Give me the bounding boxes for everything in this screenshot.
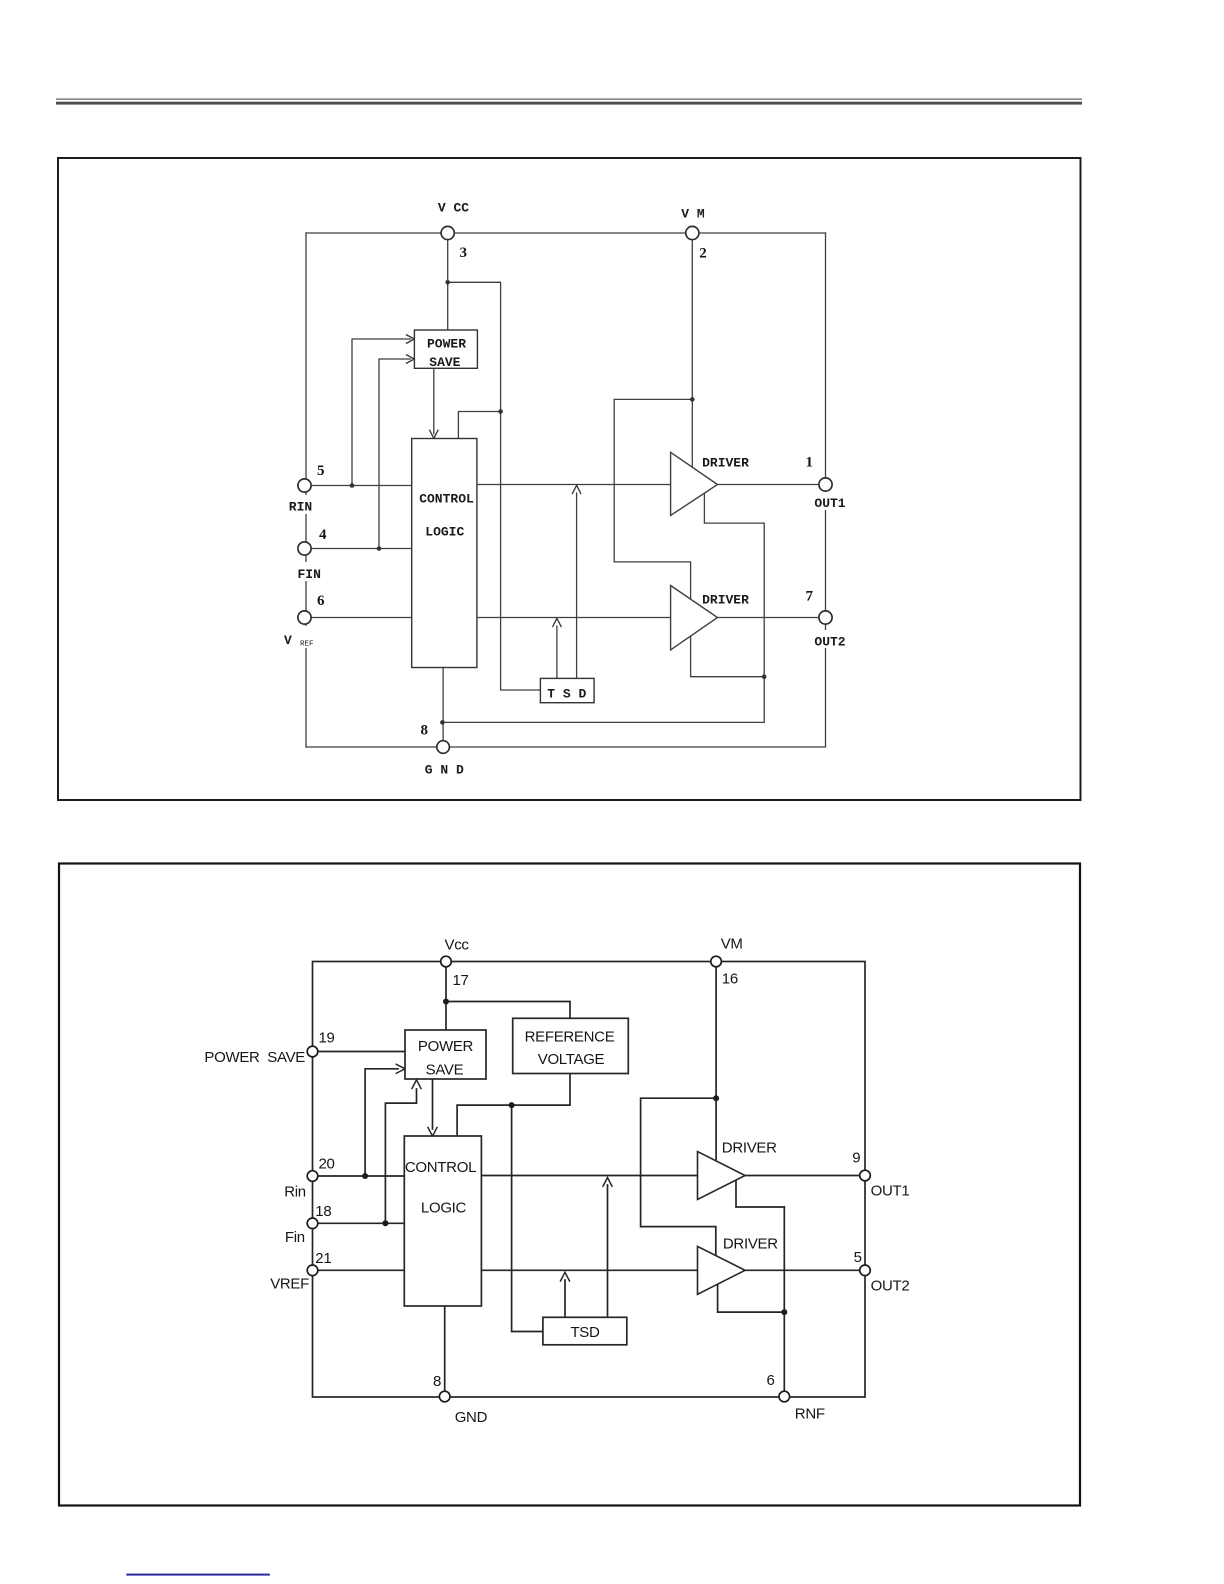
svg-text:VREF: VREF	[270, 1276, 309, 1293]
svg-text:DRIVER: DRIVER	[722, 1140, 777, 1157]
arrowhead into power save 2	[407, 355, 415, 363]
driver amp 2	[671, 586, 718, 650]
svg-text:V CC: V CC	[438, 201, 469, 216]
driver amp 1	[671, 452, 718, 515]
wire driver2 to OUT2	[745, 1269, 860, 1271]
wire Rin junction arrow into POWER SAVE left	[365, 1069, 398, 1176]
pin 6 VREF terminal	[298, 611, 311, 624]
arrowhead into POWER SAVE left	[396, 1064, 405, 1073]
svg-text:REF: REF	[300, 641, 314, 649]
wire power save to control logic	[433, 368, 435, 434]
wire VCC branch to TSD left	[448, 282, 541, 690]
svg-text:VM: VM	[721, 936, 743, 953]
wire driver1 to OUT1	[718, 484, 820, 486]
svg-text:5: 5	[317, 463, 325, 479]
svg-text:VOLTAGE: VOLTAGE	[538, 1051, 605, 1068]
wire pin18 Fin to control logic	[318, 1222, 405, 1224]
wire VCC/VM top rail	[306, 232, 826, 234]
pin 16 VM terminal	[711, 956, 722, 967]
wire VM branch to driver2	[614, 399, 692, 602]
svg-text:18: 18	[315, 1203, 331, 1220]
wire control logic to driver1	[481, 1175, 697, 1177]
arrowhead into CONTROL LOGIC top	[428, 1128, 437, 1137]
pin 21 VREF terminal	[307, 1265, 318, 1276]
svg-text:TSD: TSD	[570, 1324, 600, 1341]
block TSD 2	[543, 1317, 627, 1345]
figure frame 1	[58, 158, 1081, 800]
block REFERENCE VOLTAGE	[513, 1018, 629, 1073]
DIAGRAM1	[58, 158, 1081, 800]
pin 8 GND terminal	[439, 1391, 450, 1402]
junction Rin wire	[362, 1173, 368, 1179]
wire pin19 to POWER SAVE	[318, 1051, 405, 1053]
junction Fin wire	[382, 1220, 388, 1226]
svg-text:V M: V M	[681, 207, 705, 222]
wire VM drop to driver1	[715, 967, 717, 1163]
wire Vcc branch to REFERENCE VOLTAGE	[446, 1002, 570, 1019]
wire left rail pins 5-4-6 column	[305, 233, 307, 747]
junction Vcc branch	[443, 999, 449, 1005]
svg-text:1: 1	[806, 455, 814, 471]
wire TSD arrow to driver2 input	[556, 626, 558, 678]
arrowhead into power save 1	[407, 335, 415, 343]
svg-text:8: 8	[433, 1373, 441, 1390]
pin 17 Vcc terminal	[441, 956, 452, 967]
wire VCC drop to POWER SAVE	[447, 240, 449, 331]
wire driver1 lower tap to gnd link	[442, 492, 764, 722]
svg-text:OUT1: OUT1	[871, 1182, 910, 1199]
svg-text:7: 7	[806, 589, 814, 605]
arrowhead TSD to driver2 wire	[561, 1272, 570, 1281]
svg-text:POWER: POWER	[418, 1038, 474, 1055]
junction driver2 tap	[762, 674, 767, 679]
svg-text:OUT1: OUT1	[814, 496, 845, 511]
pin 7 OUT2 terminal	[819, 611, 832, 624]
pin 4 FIN terminal	[298, 542, 311, 555]
svg-text:17: 17	[453, 972, 469, 989]
wire pin5 RIN to control logic	[311, 485, 412, 487]
svg-text:DRIVER: DRIVER	[702, 456, 749, 471]
label OUT2	[812, 630, 849, 650]
wire driver2 lower tap	[691, 634, 765, 677]
pin 8 GND terminal	[437, 741, 450, 754]
pin 9 OUT1 terminal	[860, 1170, 871, 1181]
junction driver2 tap RNF column	[781, 1309, 787, 1315]
svg-text:21: 21	[315, 1250, 331, 1267]
wire control logic to driver2	[477, 617, 671, 619]
junction VM drop	[690, 397, 695, 402]
wire control logic to driver1	[477, 484, 671, 486]
svg-text:5: 5	[854, 1249, 862, 1266]
svg-text:CONTROL: CONTROL	[419, 492, 474, 507]
wire VM branch to driver2	[641, 1098, 717, 1258]
svg-text:19: 19	[319, 1030, 335, 1047]
chip outline rectangle	[313, 962, 866, 1398]
block POWER SAVE	[414, 330, 477, 370]
wire control logic bottom to GND	[444, 1306, 446, 1392]
label OUT1	[812, 492, 849, 511]
wire right rail OUT1/OUT2 column	[825, 233, 827, 747]
svg-text:CONTROL: CONTROL	[405, 1159, 476, 1176]
svg-text:GND: GND	[455, 1409, 488, 1426]
pin 6 RNF terminal	[779, 1391, 790, 1402]
svg-text:6: 6	[767, 1372, 775, 1389]
svg-text:RNF: RNF	[795, 1406, 825, 1423]
wire bottom GND rail	[306, 746, 825, 748]
block POWER SAVE 2	[405, 1030, 486, 1079]
svg-text:8: 8	[421, 723, 429, 739]
wire control logic bottom to GND pin	[442, 668, 444, 741]
wire TSD arrow to driver2 input wire	[564, 1280, 566, 1317]
svg-text:Fin: Fin	[285, 1229, 305, 1246]
pin 5 RIN terminal	[298, 479, 311, 492]
svg-text:SAVE: SAVE	[426, 1061, 464, 1078]
svg-text:3: 3	[460, 245, 468, 261]
svg-text:OUT2: OUT2	[814, 635, 845, 650]
block TSD	[540, 678, 594, 702]
header double rule	[56, 99, 1082, 105]
svg-text:DRIVER: DRIVER	[723, 1235, 778, 1252]
svg-text:Vcc: Vcc	[445, 937, 470, 954]
wire driver1 to OUT1	[745, 1175, 860, 1177]
driver amp 2 (diagram2)	[698, 1246, 746, 1294]
pin 20 Rin terminal	[307, 1171, 318, 1182]
wire REFERENCE VOLTAGE to CONTROL LOGIC top	[457, 1074, 570, 1137]
wire pin6 VREF to control logic	[311, 617, 412, 619]
svg-text:G N D: G N D	[425, 763, 464, 778]
svg-text:POWER SAVE: POWER SAVE	[204, 1049, 305, 1066]
pin 1 OUT1 terminal	[819, 478, 832, 491]
arrowhead TSD to driver1 wire	[603, 1178, 612, 1187]
label VREF	[280, 626, 326, 649]
driver amp 1 (diagram2)	[698, 1152, 746, 1200]
arrowhead TSD to driver2 wire	[553, 618, 561, 626]
wire POWER SAVE down to CONTROL LOGIC	[432, 1079, 434, 1129]
junction control logic top tap	[498, 409, 503, 414]
DIAGRAM2	[59, 864, 1080, 1506]
block CONTROL LOGIC 2	[404, 1136, 481, 1306]
svg-text:LOGIC: LOGIC	[425, 525, 464, 540]
wire pin21 VREF to control logic	[318, 1269, 405, 1271]
wire TSD arrow to driver1 input wire	[607, 1185, 609, 1317]
svg-text:9: 9	[852, 1150, 860, 1167]
figure frame 2	[59, 864, 1080, 1506]
wire reference branch down to TSD	[512, 1105, 543, 1331]
pin 19 POWER SAVE terminal	[307, 1046, 318, 1057]
wire driver1 lower tap	[736, 1178, 784, 1207]
svg-text:4: 4	[319, 527, 327, 543]
svg-text:FIN: FIN	[298, 567, 321, 582]
block CONTROL LOGIC	[412, 439, 477, 668]
wire driver2 to OUT2	[718, 617, 820, 619]
wire driver2 lower tap	[718, 1282, 785, 1312]
svg-text:LOGIC: LOGIC	[421, 1200, 467, 1217]
junction gnd link	[440, 720, 445, 725]
svg-text:OUT2: OUT2	[871, 1278, 910, 1295]
svg-text:Rin: Rin	[284, 1184, 306, 1201]
wire TSD arrow to driver1 input	[576, 493, 578, 678]
pin 5 OUT2 terminal	[860, 1265, 871, 1276]
svg-text:POWER: POWER	[427, 337, 466, 352]
wire pin4 FIN to control logic	[311, 548, 412, 550]
arrowhead into POWER SAVE bottom	[412, 1080, 421, 1089]
svg-text:6: 6	[317, 593, 325, 609]
wire CONTROL LOGIC top tap to VCC branch	[458, 412, 500, 439]
arrowhead into control logic top	[430, 430, 438, 438]
svg-text:20: 20	[319, 1156, 335, 1173]
svg-text:2: 2	[699, 246, 707, 262]
wire control logic to driver2	[481, 1269, 697, 1271]
pin 3 VCC terminal	[441, 226, 454, 239]
wire VM drop to driver1	[691, 240, 693, 471]
svg-text:V: V	[284, 633, 292, 648]
svg-text:16: 16	[722, 971, 738, 988]
junction VCC branch	[445, 280, 450, 285]
label FIN	[281, 562, 321, 582]
wire power save arrow input 2	[379, 359, 411, 549]
junction pin5 wire	[350, 483, 355, 488]
wire power save arrow input 1	[352, 339, 411, 486]
pin 2 VM terminal	[686, 226, 699, 239]
svg-text:RIN: RIN	[289, 500, 312, 515]
svg-text:DRIVER: DRIVER	[702, 593, 749, 608]
svg-text:T S D: T S D	[547, 687, 586, 702]
svg-text:SAVE: SAVE	[429, 355, 460, 370]
junction pin4 wire	[377, 546, 382, 551]
wire Fin junction arrow into POWER SAVE bottom	[385, 1089, 416, 1223]
footer link rule	[126, 1574, 269, 1576]
junction reference to TSD	[509, 1102, 515, 1108]
pin 18 Fin terminal	[307, 1218, 318, 1229]
svg-text:REFERENCE: REFERENCE	[525, 1028, 615, 1045]
arrowhead TSD to driver1 wire	[572, 485, 580, 493]
junction VM drop	[713, 1095, 719, 1101]
label RIN	[283, 495, 317, 515]
wire tap column down to RNF	[783, 1207, 785, 1392]
wire pin20 Rin to control logic	[318, 1175, 405, 1177]
wire Vcc drop to POWER SAVE	[445, 967, 447, 1030]
